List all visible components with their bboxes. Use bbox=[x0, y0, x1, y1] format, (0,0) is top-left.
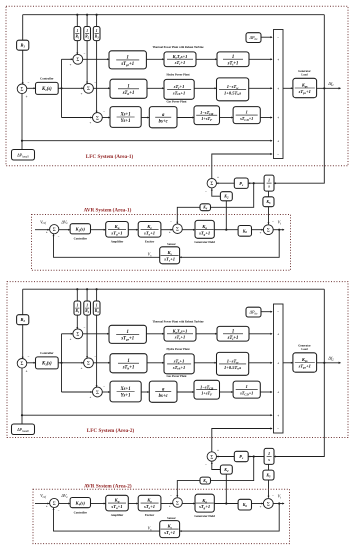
wire dP_tie to summer bbox=[261, 36, 272, 38]
svg-text:1: 1 bbox=[268, 451, 270, 456]
wire droop 1/R1 to thermal junction bbox=[76, 41, 78, 55]
svg-text:Exciter: Exciter bbox=[145, 513, 155, 517]
gas summing junction bbox=[93, 113, 103, 123]
svg-text:−: − bbox=[277, 310, 279, 314]
svg-text:Amplifier: Amplifier bbox=[111, 239, 124, 243]
svg-text:1: 1 bbox=[76, 29, 78, 33]
svg-text:Xs+1: Xs+1 bbox=[119, 387, 130, 392]
wire to gas combustor bbox=[177, 117, 194, 119]
droop block 1/R2 area-2 bbox=[84, 301, 91, 315]
wire amplifier to exciter bbox=[128, 503, 138, 505]
coupling gain K6 area-2 bbox=[238, 499, 251, 510]
wire to thermal summing junction bbox=[62, 333, 73, 335]
wire Ps to tie summing junction bbox=[216, 182, 234, 184]
thermal summing junction bbox=[73, 54, 83, 64]
svg-text:1: 1 bbox=[232, 329, 234, 334]
svg-text:Σ: Σ bbox=[96, 391, 99, 396]
wire hydro output to summer bbox=[249, 362, 272, 364]
wire V_t down to sensor bbox=[180, 230, 280, 258]
svg-text:−: − bbox=[205, 462, 207, 466]
wire to gas summing junction bbox=[62, 391, 93, 393]
junction field voltage tap bbox=[225, 502, 227, 504]
droop block 1/R2 area-1 bbox=[84, 27, 91, 41]
thermal reheat turbine block bbox=[164, 52, 196, 67]
wire top line to bias block B2 bbox=[22, 289, 24, 315]
wire droop 1/R3 to gas junction bbox=[96, 41, 98, 113]
svg-text:−: − bbox=[170, 493, 172, 497]
wire to gas compressor discharge bbox=[220, 391, 234, 393]
wire to gas valve positioner bbox=[102, 117, 110, 119]
distribution node bbox=[60, 362, 62, 364]
wire load line up into ACE summing junction bbox=[21, 94, 23, 141]
thermal turbine block bbox=[217, 326, 249, 341]
svg-text:−: − bbox=[84, 326, 86, 330]
wire delta-f1 feedback down to integrator bbox=[274, 88, 324, 183]
sensor block area-2 bbox=[160, 521, 180, 538]
exciter block area-1 bbox=[138, 222, 161, 238]
svg-text:1: 1 bbox=[76, 304, 78, 308]
wire to hydro summing junction bbox=[62, 87, 84, 89]
load disturbance box dP_load1 bbox=[12, 150, 35, 161]
svg-text:+: + bbox=[46, 504, 48, 508]
wire sensor output to AVR input junction bbox=[54, 508, 160, 531]
AVR controller block K4(s) bbox=[70, 498, 90, 508]
svg-text:1: 1 bbox=[127, 330, 129, 335]
gas compressor discharge block bbox=[233, 381, 260, 398]
coupling gain K2 area-2 bbox=[220, 465, 232, 474]
wire terminal voltage output bbox=[273, 229, 284, 231]
AVR input summing junction area-2 bbox=[50, 498, 59, 507]
AVR System Area-1 border box bbox=[32, 215, 291, 271]
svg-text:−: − bbox=[272, 493, 274, 497]
wire K6 to terminal voltage summing junction bbox=[252, 229, 264, 231]
gas valve positioner block bbox=[110, 107, 141, 128]
wire K6 to terminal voltage summing junction bbox=[252, 503, 264, 505]
wire to thermal summing junction bbox=[62, 58, 73, 60]
svg-text:+: + bbox=[277, 391, 279, 395]
wire to gas combustor bbox=[177, 391, 194, 393]
synchronizing coefficient block Ps area-2 bbox=[234, 451, 248, 461]
load disturbance wire to summer bbox=[22, 140, 272, 142]
power summing block area-1 bbox=[274, 30, 284, 159]
svg-text:Hydro Power Plant: Hydro Power Plant bbox=[166, 348, 189, 351]
svg-text:sTgr​+1: sTgr​+1 bbox=[120, 62, 134, 67]
svg-text:Sensor: Sensor bbox=[167, 516, 176, 520]
generator load block bbox=[293, 353, 317, 372]
wire K2 output to tie junction bbox=[212, 188, 221, 196]
hydro governor block bbox=[110, 354, 147, 373]
wire V_t down to sensor bbox=[180, 504, 280, 532]
LFC System Area-1 border box bbox=[6, 6, 348, 166]
wire tie summing junction up to power summer bbox=[212, 429, 272, 452]
svg-text:−: − bbox=[205, 189, 207, 193]
svg-text:Generator Field: Generator Field bbox=[194, 514, 215, 518]
distribution vertical wire bbox=[61, 59, 63, 117]
wire controller to amplifier bbox=[91, 229, 106, 231]
wire load box stub bbox=[21, 141, 23, 150]
wire top line to droop 1/R1 bbox=[76, 289, 78, 301]
power summing block area-2 bbox=[274, 304, 284, 433]
wire field voltage up into K2 bbox=[225, 201, 227, 230]
svg-text:Σ: Σ bbox=[176, 228, 179, 233]
svg-text:1: 1 bbox=[96, 29, 98, 33]
wire governor to reheat bbox=[146, 58, 164, 60]
field summing junction area-2 bbox=[173, 498, 183, 508]
generator field block area-2 bbox=[195, 494, 214, 512]
droop block 1/R3 area-1 bbox=[93, 27, 100, 41]
svg-text:1: 1 bbox=[86, 304, 88, 308]
coupling gain K5 area-1 bbox=[263, 197, 274, 207]
wire to gas valve positioner bbox=[102, 391, 110, 393]
svg-text:+: + bbox=[70, 337, 72, 341]
hydro governor block bbox=[110, 79, 147, 98]
svg-text:Ys+1: Ys+1 bbox=[121, 394, 131, 399]
droop block 1/R1 area-1 bbox=[74, 27, 81, 41]
svg-text:K5​: K5​ bbox=[265, 199, 271, 205]
svg-text:Σ: Σ bbox=[87, 87, 90, 92]
svg-text:+: + bbox=[260, 504, 262, 508]
junction on top wire above 1/R_22 bbox=[86, 288, 88, 290]
generator field block area-1 bbox=[195, 220, 214, 238]
wire controller to amplifier bbox=[91, 503, 106, 505]
svg-text:K5​: K5​ bbox=[265, 472, 271, 478]
wire summer to generator bbox=[283, 87, 293, 89]
wire top line to droop 1/R3 bbox=[96, 15, 98, 27]
wire reheat to turbine bbox=[196, 333, 217, 335]
junction on V_t output bbox=[278, 229, 280, 231]
load disturbance wire to summer bbox=[22, 414, 272, 416]
svg-text:Σ: Σ bbox=[76, 333, 79, 338]
wire droop 1/R2 to hydro junction bbox=[86, 41, 88, 84]
synchronizing coefficient block Ps area-1 bbox=[234, 178, 248, 188]
hydro penstock block bbox=[217, 78, 249, 101]
svg-text:sTh​+1: sTh​+1 bbox=[122, 365, 135, 370]
ACE summing junction area-1 bbox=[17, 84, 27, 94]
wire top line to droop 1/R2 bbox=[86, 15, 88, 27]
svg-text:Gas Power Plant: Gas Power Plant bbox=[167, 375, 187, 378]
integrator block 1/s area-1 bbox=[264, 175, 274, 191]
svg-text:K6​: K6​ bbox=[242, 502, 248, 508]
svg-text:+: + bbox=[277, 414, 279, 418]
wire to gas summing junction bbox=[62, 117, 93, 119]
wire to gas speed governor bbox=[141, 117, 149, 119]
junction delta-delta node bbox=[253, 455, 255, 457]
gas fuel combustor block bbox=[194, 106, 220, 125]
junction on delta-f1 output bbox=[323, 87, 325, 89]
generator load block bbox=[293, 78, 317, 97]
junction on top wire above 1/R_11 bbox=[76, 14, 78, 16]
svg-text:+: + bbox=[169, 230, 171, 234]
wire top line to droop 1/R3 bbox=[96, 289, 98, 301]
junction on V_t output bbox=[278, 502, 280, 504]
wire integrator to junction and Ps bbox=[248, 182, 264, 184]
wire load line up into ACE summing junction bbox=[21, 368, 23, 415]
wire to generator field bbox=[182, 503, 195, 505]
wire top line to droop 1/R1 bbox=[76, 15, 78, 27]
thermal summing junction bbox=[73, 329, 83, 339]
junction on top wire above 1/R_23 bbox=[96, 288, 98, 290]
gas speed governor block bbox=[149, 381, 177, 402]
LFC controller block K1(s) bbox=[36, 82, 59, 94]
wire to gas compressor discharge bbox=[220, 117, 234, 119]
svg-text:sTt​+1: sTt​+1 bbox=[227, 61, 239, 66]
svg-text:K1​(s): K1​(s) bbox=[41, 87, 52, 92]
svg-text:bs+c: bs+c bbox=[159, 394, 169, 399]
svg-text:+: + bbox=[277, 139, 279, 143]
wire V_ref input bbox=[35, 229, 49, 231]
wire integrator down to K5 bbox=[268, 464, 270, 470]
wire to thermal governor bbox=[83, 58, 109, 60]
sensor block area-1 bbox=[160, 247, 180, 264]
svg-text:−: − bbox=[28, 81, 30, 85]
wire junction down to K4 bbox=[211, 183, 254, 207]
svg-text:−: − bbox=[28, 355, 30, 359]
junction on load line bbox=[21, 414, 23, 416]
wire K5 down to terminal voltage summing junction bbox=[268, 207, 270, 225]
svg-text:Σ: Σ bbox=[210, 455, 213, 460]
wire to thermal governor bbox=[83, 333, 109, 335]
svg-text:sTh​+1: sTh​+1 bbox=[122, 91, 135, 96]
wire thermal output to summer bbox=[249, 333, 272, 335]
wire K4 to AVR field summing junction bbox=[177, 481, 200, 498]
svg-text:Σ: Σ bbox=[87, 362, 90, 367]
integrator block 1/s area-2 bbox=[264, 448, 274, 464]
svg-text:−: − bbox=[170, 219, 172, 223]
gas fuel combustor block bbox=[194, 380, 220, 399]
svg-text:−: − bbox=[103, 384, 105, 388]
wire K2 output to tie junction bbox=[212, 461, 221, 469]
svg-text:+: + bbox=[70, 63, 72, 67]
svg-text:Σ: Σ bbox=[267, 502, 270, 507]
svg-text:−: − bbox=[84, 51, 86, 55]
wire to hydro governor bbox=[93, 87, 110, 89]
svg-text:+: + bbox=[217, 175, 219, 179]
wire top line to droop 1/R2 bbox=[86, 289, 88, 301]
wire to hydro summing junction bbox=[62, 362, 84, 364]
wire junction down to K4 bbox=[211, 457, 254, 481]
junction delta-delta node bbox=[253, 182, 255, 184]
svg-text:K2​: K2​ bbox=[223, 194, 229, 200]
wire terminal voltage output bbox=[273, 503, 284, 505]
terminal voltage summing junction area-1 bbox=[263, 225, 273, 235]
wire controller output to distribution node bbox=[58, 87, 61, 89]
wire hydro governor to droop compensation bbox=[147, 362, 164, 364]
gas speed governor block bbox=[149, 107, 177, 128]
hydro summing junction bbox=[84, 83, 94, 93]
svg-text:+: + bbox=[81, 92, 83, 96]
svg-text:1: 1 bbox=[96, 304, 98, 308]
svg-text:+: + bbox=[26, 369, 28, 373]
AVR input summing junction area-1 bbox=[50, 225, 59, 234]
junction on load line bbox=[21, 140, 23, 142]
droop block 1/R3 area-2 bbox=[93, 301, 100, 315]
svg-text:Load: Load bbox=[301, 348, 308, 351]
wire to hydro penstock bbox=[194, 362, 216, 364]
svg-text:Controller: Controller bbox=[40, 351, 54, 355]
amplifier block area-2 bbox=[106, 495, 129, 511]
wire droop 1/R1 to thermal junction bbox=[76, 315, 78, 329]
wire generator output delta-f2 bbox=[317, 362, 341, 364]
svg-text:1: 1 bbox=[86, 29, 88, 33]
exciter block area-2 bbox=[138, 495, 161, 511]
svg-text:K6​: K6​ bbox=[242, 228, 248, 234]
wire generator field to K6 bbox=[214, 229, 238, 231]
LFC area-2 frequency feedback top wire bbox=[23, 288, 325, 290]
wire to hydro penstock bbox=[194, 87, 216, 89]
svg-text:−: − bbox=[277, 427, 279, 431]
svg-text:+: + bbox=[277, 116, 279, 120]
gas summing junction bbox=[93, 387, 103, 397]
gas valve positioner block bbox=[110, 381, 141, 402]
junction on delta-f2 output bbox=[323, 362, 325, 364]
svg-text:K3​(s): K3​(s) bbox=[41, 362, 52, 367]
wire exciter to field summing junction bbox=[161, 503, 173, 505]
thermal turbine block bbox=[217, 52, 249, 67]
svg-text:Σ: Σ bbox=[267, 229, 270, 234]
wire exciter to field summing junction bbox=[161, 229, 173, 231]
tie summing junction area-1 bbox=[207, 179, 216, 188]
svg-text:LFC System (Area-2): LFC System (Area-2) bbox=[87, 427, 135, 434]
wire gas output to summer bbox=[260, 117, 272, 119]
frequency feedback vertical wire area-1 bbox=[323, 15, 325, 89]
svg-text:+: + bbox=[217, 448, 219, 452]
wire reheat to turbine bbox=[196, 58, 217, 60]
svg-text:Controller: Controller bbox=[40, 77, 54, 81]
tie-line power box dP_tie area-1 bbox=[246, 33, 261, 43]
AVR controller block K2(s) bbox=[70, 224, 90, 234]
svg-text:LFC System (Area-1): LFC System (Area-1) bbox=[86, 153, 134, 160]
svg-text:s: s bbox=[267, 184, 270, 189]
wire delta-f2 feedback down to integrator bbox=[274, 363, 324, 457]
wire droop 1/R2 to hydro junction bbox=[86, 315, 88, 358]
hydro penstock block bbox=[217, 352, 249, 375]
svg-text:s: s bbox=[267, 457, 270, 462]
coupling gain K5 area-2 bbox=[263, 470, 274, 480]
wire hydro output to summer bbox=[249, 87, 272, 89]
droop block 1/R1 area-2 bbox=[74, 301, 81, 315]
wire tie summing junction up to power summer bbox=[212, 154, 272, 179]
junction on top wire above 1/R_12 bbox=[86, 14, 88, 16]
wire to hydro governor bbox=[93, 362, 110, 364]
bias block B2 bbox=[17, 315, 29, 325]
wire ACE junction to controller bbox=[27, 87, 36, 89]
svg-text:−: − bbox=[277, 36, 279, 40]
svg-text:−: − bbox=[58, 508, 60, 512]
svg-text:Xs+1: Xs+1 bbox=[119, 113, 130, 118]
wire generator output delta-f1 bbox=[317, 87, 341, 89]
svg-text:+: + bbox=[277, 333, 279, 337]
wire to generator field bbox=[182, 229, 195, 231]
hydro droop compensation block bbox=[164, 354, 194, 374]
svg-text:1: 1 bbox=[232, 55, 234, 60]
svg-text:Σ: Σ bbox=[21, 88, 24, 93]
svg-text:Σ: Σ bbox=[176, 501, 179, 506]
coupling gain K6 area-1 bbox=[238, 226, 251, 237]
svg-text:+: + bbox=[26, 95, 28, 99]
svg-text:Controller: Controller bbox=[74, 237, 88, 241]
coupling gain K4 area-2 bbox=[200, 477, 211, 484]
wire to AVR controller bbox=[59, 503, 70, 505]
load disturbance box dP_load2 bbox=[12, 424, 35, 435]
junction field voltage tap bbox=[225, 229, 227, 231]
wire gas output to summer bbox=[260, 391, 272, 393]
svg-text:−: − bbox=[272, 219, 274, 223]
wire integrator to junction and Ps bbox=[248, 456, 264, 458]
hydro summing junction bbox=[84, 358, 94, 368]
wire load box stub bbox=[21, 415, 23, 424]
svg-text:1: 1 bbox=[127, 84, 129, 89]
wire to gas speed governor bbox=[141, 391, 149, 393]
svg-text:1: 1 bbox=[246, 110, 248, 115]
wire ACE junction to controller bbox=[27, 362, 36, 364]
wire hydro governor to droop compensation bbox=[147, 87, 164, 89]
svg-text:Thermal Power Plant with Rehea: Thermal Power Plant with Reheat Turbine bbox=[153, 46, 205, 49]
svg-text:Generator Field: Generator Field bbox=[194, 240, 215, 244]
svg-text:Load: Load bbox=[301, 74, 308, 77]
wire Ps to tie summing junction bbox=[216, 456, 234, 458]
field summing junction area-1 bbox=[173, 224, 183, 234]
ACE summing junction area-2 bbox=[17, 359, 27, 369]
thermal reheat turbine block bbox=[164, 326, 196, 341]
svg-text:+: + bbox=[90, 121, 92, 125]
svg-text:Thermal Power Plant with Rehea: Thermal Power Plant with Reheat Turbine bbox=[153, 321, 205, 324]
svg-text:Amplifier: Amplifier bbox=[111, 513, 124, 517]
coupling gain K4 area-1 bbox=[200, 204, 211, 211]
thermal governor block bbox=[109, 51, 146, 69]
wire K5 down to terminal voltage summing junction bbox=[268, 480, 270, 498]
distribution node bbox=[60, 87, 62, 89]
svg-text:Σ: Σ bbox=[53, 228, 56, 233]
wire field voltage up into K2 bbox=[225, 474, 227, 503]
svg-text:Gas Power Plant: Gas Power Plant bbox=[167, 101, 187, 104]
LFC controller block K3(s) bbox=[36, 357, 59, 369]
LFC area-1 frequency feedback top wire bbox=[23, 14, 325, 16]
svg-text:1: 1 bbox=[127, 359, 129, 364]
svg-text:K2​: K2​ bbox=[223, 467, 229, 473]
junction on top wire above 1/R_21 bbox=[76, 288, 78, 290]
wire generator field to K6 bbox=[214, 503, 238, 505]
svg-text:+: + bbox=[90, 395, 92, 399]
svg-text:+: + bbox=[81, 366, 83, 370]
svg-text:Σ: Σ bbox=[210, 182, 213, 187]
svg-text:+: + bbox=[277, 87, 279, 91]
svg-text:AVR System (Area-1): AVR System (Area-1) bbox=[84, 206, 132, 213]
thermal governor block bbox=[109, 325, 146, 343]
svg-text:1: 1 bbox=[246, 384, 248, 389]
AVR System Area-2 border box bbox=[33, 489, 290, 543]
svg-text:sTt​+1: sTt​+1 bbox=[227, 336, 239, 341]
wire governor to reheat bbox=[146, 333, 164, 335]
wire sensor output to AVR input junction bbox=[54, 234, 160, 257]
tie-line power box dP_tie area-2 bbox=[246, 307, 261, 317]
svg-text:−: − bbox=[103, 109, 105, 113]
distribution vertical wire bbox=[61, 334, 63, 392]
gas compressor discharge block bbox=[233, 107, 260, 124]
wire controller output to distribution node bbox=[58, 362, 61, 364]
svg-text:Ys+1: Ys+1 bbox=[121, 119, 131, 124]
svg-text:Exciter: Exciter bbox=[145, 239, 155, 243]
wire K4 to AVR field summing junction bbox=[177, 207, 200, 224]
hydro droop compensation block bbox=[164, 79, 194, 99]
svg-text:Σ: Σ bbox=[76, 58, 79, 63]
wire integrator down to K5 bbox=[268, 191, 270, 197]
wire droop 1/R3 to gas junction bbox=[96, 315, 98, 387]
frequency feedback vertical wire area-2 bbox=[323, 289, 325, 363]
wire to AVR controller bbox=[59, 229, 70, 231]
wire amplifier to exciter bbox=[128, 229, 138, 231]
svg-text:Σ: Σ bbox=[53, 502, 56, 507]
svg-text:−: − bbox=[58, 234, 60, 238]
